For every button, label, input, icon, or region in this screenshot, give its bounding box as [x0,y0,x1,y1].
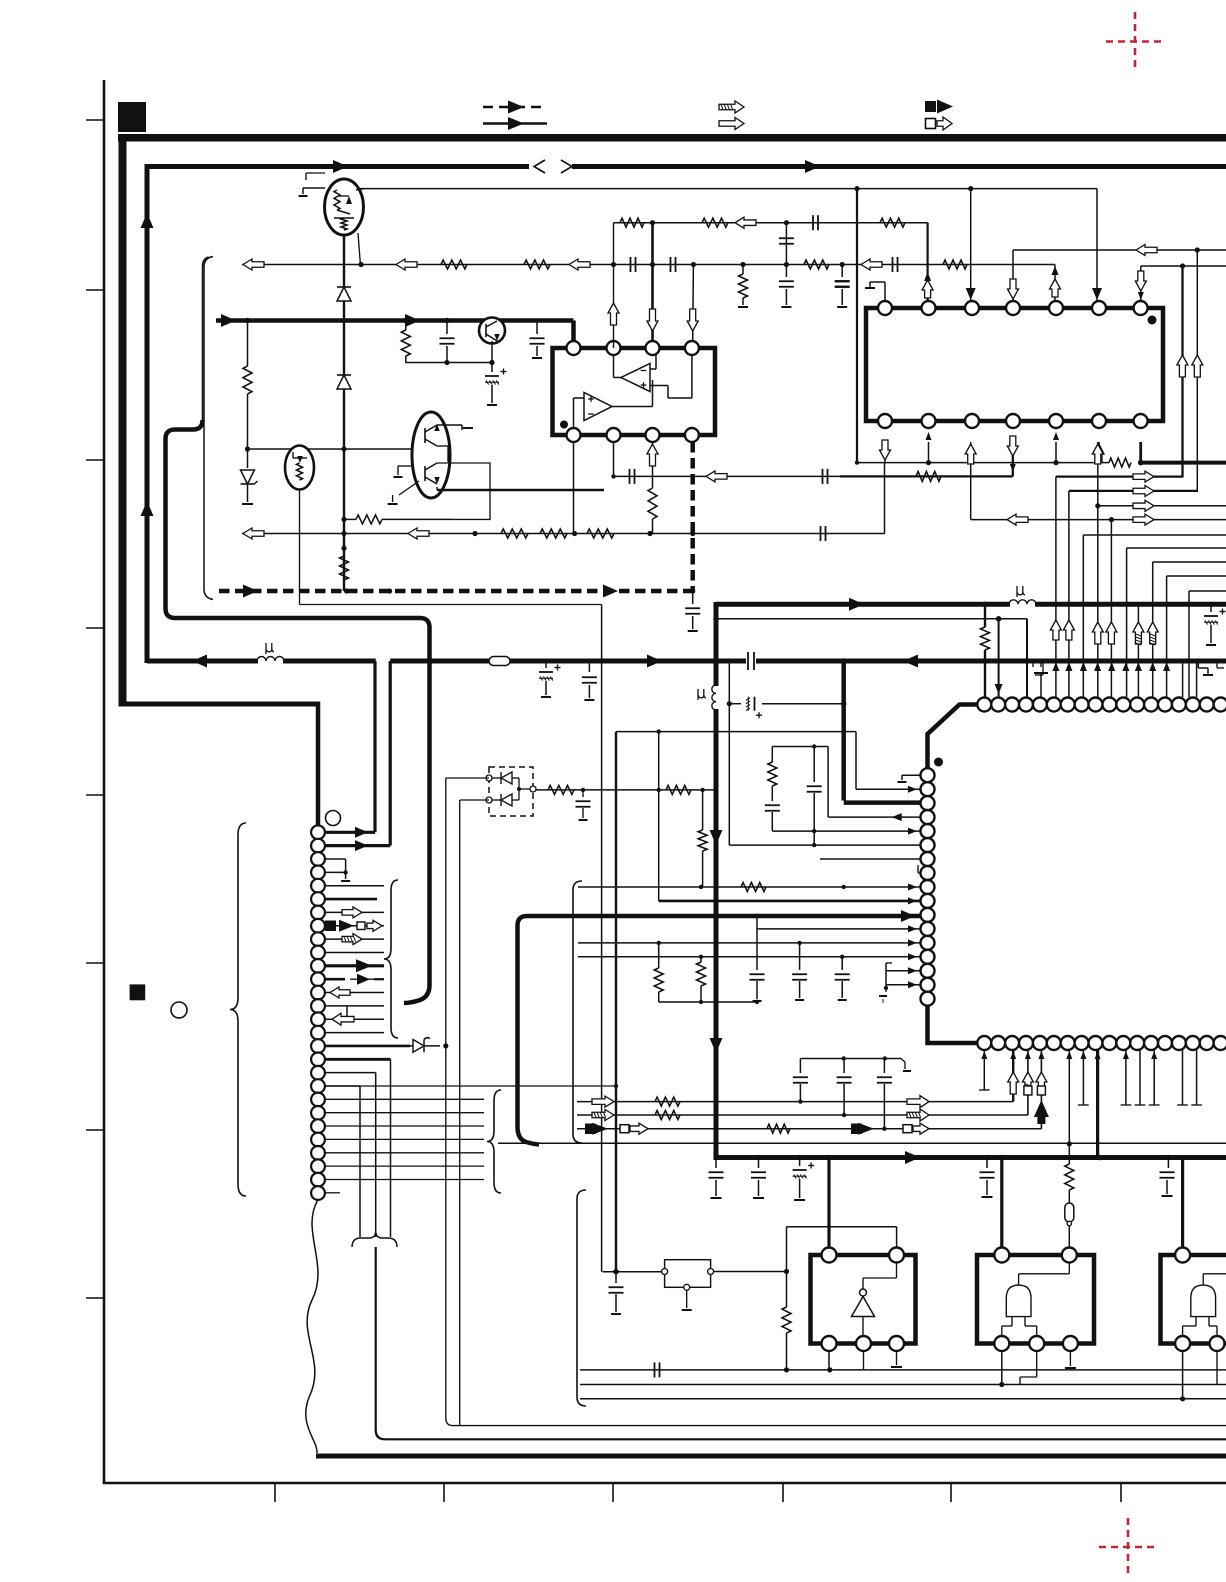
connector CN1 pin 27 [311,1173,325,1187]
net bus left vertical x147 [145,164,150,663]
cluster cap right [813,747,815,783]
U3 L1 stub ground [902,774,920,776]
vertical x702 row790-887 [702,790,704,830]
Q4 internals [424,466,426,481]
U3 L2 wire [856,788,920,790]
border tick bottom 4 [782,1483,784,1502]
corner mark square [118,102,146,132]
junction dot row845 x814 [812,843,816,847]
legend black arrow [937,100,953,114]
diode pack dashed box [489,767,533,816]
bus y604 arrow right [849,598,864,611]
U2 pin1140 wire up [1140,266,1142,301]
cap below bus1157 x1167 [1167,1158,1169,1169]
connector CN1 pin 1 [311,825,325,839]
ground stub bus661 right [1197,661,1199,668]
U3 bottom pin b12 [1130,1036,1144,1050]
U2 bottom pin 11 [1006,414,1020,428]
thick corner bus661 to pin row3 [841,661,846,801]
junction dot x345 y533 [341,531,346,536]
bundle bracket4 [577,1190,586,1406]
U3 bottom pin b2 [991,1036,1005,1050]
junction dot bus661 x589 [587,658,592,663]
connector marker circle [326,811,341,826]
U2 top pin 4 [1006,301,1020,315]
inductor L1 on bus661 [257,657,284,662]
vertical x345 trunk [343,234,345,591]
junction dot row1398 x1184 [1180,1396,1185,1401]
ecap below bus604 x1211 [1210,604,1212,612]
open arrow right row520 [1133,514,1154,525]
op-amp A1 (left-pointing) [621,364,650,392]
wire x1152 row562 to pin [1152,562,1154,697]
junction dot row1086 x616 [614,1084,618,1088]
row491 wire [1069,490,1197,492]
Q1 base wire and ground [303,187,325,189]
U3 bottom pin b14 [1158,1036,1172,1050]
IC U3 outline [928,705,1226,1044]
cap below bus1157 x716 [715,1158,717,1169]
wire x1166 row575 to pin [1166,576,1168,697]
open arrow up x1055 [1050,620,1061,640]
border tick left 7 [86,1129,104,1131]
junction dot bus1157 x799 [797,1155,803,1161]
U3 top pin 3 [1005,698,1019,712]
label mu L3 [698,689,706,700]
wire U1 pin5 down [573,442,575,534]
frame outer left vertical [119,137,127,707]
U2 top pin 5 [1049,301,1063,315]
connector CN1 pin 11 [311,959,325,973]
thick row462 right [1141,461,1226,465]
net bus arrow right 1 [333,160,348,173]
connector CN1 pin 8 [311,919,325,933]
transistor Q3 Q4 (dual, oval) [412,412,450,498]
junction dot bus1157 x1168 [1166,1155,1172,1161]
U3 bottom pin b6 [1047,1036,1061,1050]
CN1 pin8 combo arrows [325,925,384,927]
U2 top pin 3 [965,301,979,315]
U3 bottom pin b16 [1186,1036,1200,1050]
registration cross top-right [1106,12,1165,70]
dashed bus arrow 1 [243,585,258,598]
cap to ground x842 [841,265,843,278]
thick wire bus1157 to U5 [1000,1158,1003,1249]
junction dot row266 x1182 [1180,263,1185,268]
bus y320 arrow 2 [405,314,420,327]
routing hook top x202 [203,257,209,266]
series cap row223 [812,215,814,230]
inductor L3 on trunk x716 [712,685,716,710]
row970 stub [885,963,887,988]
junction dot row943 x799 [797,941,801,945]
junction dot row790 x583 [581,788,585,792]
J1 pin circles [662,1269,668,1275]
U5 bottom pin c [1063,1336,1078,1351]
junction dot row462 x1140 [1138,460,1144,466]
resistor x786 down [786,1272,788,1308]
connector CN1 pin 9 [311,932,325,946]
hook right arrow row [1216,661,1218,668]
cap below dashed end [692,593,694,604]
rowC y1130 wire [577,1128,1041,1130]
U3 left pin L10 [921,894,935,908]
vertical x729 wire [728,661,730,845]
wire row y250 [1013,249,1226,251]
op-amp A2 (right-pointing) [584,393,612,421]
resistor row519 [344,518,356,520]
U3 top pin 11 [1116,698,1130,712]
U3 left pin L4 [921,810,935,824]
junction dot x786 y1271 [784,1269,789,1274]
resistor row462 [1109,458,1131,467]
U4 pin bottom-c ground [896,1351,898,1366]
border tick left 3 [86,459,104,461]
row1439 wire [385,1438,1226,1440]
U2 pin972 wire up [970,189,972,301]
wire x1126 row548 to pin [1126,548,1128,697]
U2 top pin 2 [922,301,936,315]
border tick left 2 [86,289,104,291]
U3 b7 wire to resonator [1068,1050,1070,1164]
transistor Q1 (digital, oval) [325,179,364,235]
row1271 wire [603,1271,664,1273]
CN1 pin18 drop x390 [390,1059,392,1237]
U1 pin1 marker dot [560,421,568,429]
cap below bus1157 x987 [986,1158,988,1169]
diode pack pin circles [486,775,492,781]
U6 top pin a [1175,1248,1190,1263]
rowB corner up to pin [1027,1050,1029,1115]
rowC black arrow mid [858,1123,874,1135]
junction dot x1097 bus604 [1095,602,1100,607]
vertical x616 [615,732,617,1272]
U3 left pin L13 [921,936,935,950]
gate IC U4 body [811,1255,916,1344]
U6 pin bottom-a wire [1182,1351,1184,1399]
U5 pin bottom-c ground [1069,1351,1071,1367]
U3 top pin 2 [991,698,1005,712]
CN1 pin15 open arrow left [325,1018,384,1020]
junction dot row533 x692 [690,531,695,536]
bundle brace2 [487,1090,501,1193]
junction dot bus320 x405 [403,318,409,324]
wire row y533 [242,533,885,535]
ecap x492 [491,363,493,373]
U3 top pin 10 [1102,698,1116,712]
U2 bottom pin 9 [922,414,936,428]
CN1 lower row 8 [325,1179,484,1181]
Q2 emitter wire [491,341,493,363]
open arrow right row491 [1133,486,1154,497]
rowB hatched arrow left end [592,1110,614,1121]
connector CN1 pin 13 [311,986,325,1000]
U3 top pin 14 [1158,698,1172,712]
U3 b5 small arrow [1038,1051,1044,1059]
wire top feed U4 pin b [786,1227,788,1272]
wire x1138 bus604 to pin [1137,604,1139,697]
U2 top pin 7 [1134,301,1148,315]
U2 pin14 thick wire down [1139,442,1142,463]
junction dot row264 x693 [691,262,696,267]
CN1 pin7 wire open arrow [325,911,384,913]
U2 bottom pin 14 [1134,414,1148,428]
Q5 internals [293,457,307,459]
cap x845 below y1058 [843,1059,845,1074]
junction dot bus1157 x1099 [1097,1155,1103,1161]
row520 wire [971,519,1226,521]
junction dot rowA x800 [798,1099,802,1103]
open arrow right row476 [1133,471,1154,482]
wire x1196 to pin [1196,661,1198,697]
row562 wire [1153,561,1226,563]
junction dot x345 bus320 [341,318,347,324]
resistor feed x985 [984,604,986,627]
junction dot dashed x346 [344,588,349,593]
junction dot bus661 x985 [982,658,988,664]
wire x1189 row589 to pin [1188,591,1190,697]
U3 left pin L1 [921,768,935,782]
U3 left pin L2 [921,782,935,796]
junction dot row264 x613 [611,262,616,267]
U4 bottom pin c [889,1336,904,1351]
U2 pin1056 small arrow up [1052,266,1059,275]
junction dot y1002 x701 [699,1000,703,1004]
bus y661 arrow left 2 [903,655,918,668]
rowC open square arrow [620,1125,629,1133]
series cap row533 [820,526,822,541]
U2 pin9 wire down [928,442,930,463]
net bus up-arrow 2 [141,501,154,516]
series cap row264 b [670,257,672,272]
U2 pin1056 open arrow up [1050,279,1061,297]
junction dot x345 y519 [341,517,346,522]
junction dot row462 x1056 [1053,460,1058,465]
junction dot row250 x1197 [1195,247,1200,252]
junction dot bus1157 x758 [756,1155,762,1161]
junction dot bus604 x1211 [1208,602,1213,607]
CN1 pin3-4 ground [325,858,346,860]
resonator X1 [1065,1203,1074,1222]
U3 top pin 8 [1075,698,1089,712]
junction dot y362 x447 [444,360,449,365]
U5 gate wires [1018,1274,1020,1285]
U3 top pin 9 [1089,698,1103,712]
marker circle small [171,1002,187,1018]
resistor row223 b [702,218,728,227]
frame bottom thick bar [316,1454,1226,1459]
U3 left pin L6 [921,838,935,852]
vertical x857 wire [856,189,858,463]
junction dot dashed x389 [387,588,392,593]
U3 left pin L3 [921,796,935,810]
open arrow left row264 c [569,259,590,270]
cap x883 below [885,988,887,992]
resistor x345 y558-578 [340,556,349,580]
series cap row476 b [822,469,824,484]
diode D5 in pack [501,772,512,784]
U5 bottom pin a [994,1336,1009,1351]
connector CN1 pin 6 [311,892,325,906]
open arrow left row533 b [408,528,429,539]
wire x1112 row520 to pin [1110,520,1112,697]
junction dot row1370 x786 [784,1367,789,1372]
wire Q1 collector to row188 [356,189,364,190]
net bus top y166 right segment [572,164,1226,169]
vertical x857 lower dot [855,460,859,464]
junction dot dashed x692 y591 [690,588,695,593]
rowC black arrow up [1034,1100,1049,1117]
resistor to ground x743 [742,265,744,275]
wire x1183 to pin [1182,661,1184,697]
connector CN1 pin 26 [311,1159,325,1173]
rowB hatched arrow right [907,1109,929,1121]
U2 pin928 wire from row223 [926,223,928,301]
CN1 pin1 thick wire [325,831,375,834]
row535 wire [1083,534,1226,536]
wire row y618 [716,618,1027,620]
CN1 pin2 thick wire [325,844,390,847]
connector CN1 pin 28 [311,1186,325,1200]
junction dot row462 x928 [926,460,931,465]
rowA open arrow left end [592,1096,614,1107]
junction dot x345 y548 [341,546,346,551]
U3 left pin L5 [921,824,935,838]
junction dot trunk x716 y916 [713,913,719,919]
ecap below bus661 x546 [545,661,547,668]
net bus up-arrow 1 [141,213,154,228]
wire row y476 right segment [1056,475,1183,477]
U4 inverter wires [862,1278,864,1289]
cable brace left big [230,823,246,1196]
junction dot x247 y449 [245,446,250,451]
junction dot row943 x658 [657,941,661,945]
row575 wire [1167,575,1226,577]
border tick bottom 2 [443,1483,445,1502]
Q5 emitter wire down [299,490,301,605]
Q4 emitter thick wire [436,487,438,490]
wire y1002 [659,1001,757,1003]
diode pack inner join [518,778,520,800]
routing thin vertical x202 [202,266,204,420]
CN1 lower row 5 [325,1138,484,1140]
row790 wire [536,789,716,791]
U3 left pin L14 [921,950,935,964]
Q3-Q4 base rect wire [437,445,448,447]
U2 pin8 open arrow down [880,440,891,460]
corner x446 bottom [446,1418,453,1426]
U3 L2 riser x856 [855,732,857,790]
connector CN1 pin 24 [311,1133,325,1147]
CN1 pin9 hatched arrow [325,938,384,940]
U4 top pin a [822,1248,837,1263]
cap x888 below y1058 [883,1059,885,1074]
connector CN1 pin 3 [311,852,325,866]
area outline bracket x204 [204,257,213,600]
vertical x1197 wire [1196,250,1198,492]
U3 top pin 4 [1019,698,1033,712]
wire row533 corner up x884 [884,463,886,534]
ecap below bus1157 x800 [799,1158,801,1167]
junction dot row505 [1095,503,1100,508]
junction dot row264 x786 [784,262,789,267]
U3 top pin 18 [1214,698,1226,712]
cap x616 below dot [615,1272,617,1283]
routing S-path thick [166,420,430,1003]
U4 top pin b [889,1248,904,1263]
row589 wire [1189,590,1226,592]
row505 wire [1098,505,1226,507]
row1086 extension [484,1085,616,1087]
wire row y264 [242,264,1055,266]
series cap row476 [629,469,631,484]
vertical x757 wire [756,916,758,970]
junction dot x886 y988 [884,986,888,990]
U3 bottom pin b1 [977,1036,991,1050]
wire x1083 row535 to pin [1082,535,1084,697]
U6 pin bottom-b wire [1216,1351,1218,1385]
U3 bottom pin b4 [1019,1036,1033,1050]
bus y320 arrow 1 [221,314,236,327]
junction dot x345 y449 [341,446,346,451]
U3 top pin 1 [977,698,991,712]
open arrow down x693 [687,309,698,331]
U2 pin11 arrow below [1007,436,1018,456]
wire x1027 row618 to pin [1026,619,1028,697]
U3 b13 stub [1153,1050,1155,1105]
open arrow up x1097 top [1092,444,1103,464]
U2 bottom pin 10 [965,414,979,428]
junction dot cluster top x814 [812,744,816,748]
rowA open arrow up [1008,1072,1019,1094]
junction dot row520 [1109,517,1114,522]
junction dot y362 x492 [489,360,494,365]
U2 pin1099 wire up [1096,189,1098,301]
series cap row264 a [630,257,632,272]
CN1 pin20 wire [325,1085,360,1087]
wire x1013 pin to row476 [1012,440,1014,476]
U1 bottom pin 7 [646,428,660,442]
connector CN1 pin 22 [311,1106,325,1120]
wire x985 bus661 to pin [984,661,986,697]
junction dot row264 x361 [358,262,363,267]
wire y703 with ecap [729,703,741,705]
rowB hatched arrow up [1022,1072,1033,1094]
open arrow left row250 [1136,245,1157,256]
U4 pin bottom-b wire [863,1351,865,1370]
U3 left pin L17 [921,992,935,1006]
CN1 lower row 4 [325,1125,484,1127]
U3 b3 small arrow [1010,1051,1016,1059]
rowA resistor [655,1097,680,1106]
junction dot pin17 x446 [443,1043,448,1048]
small arrow x1169 [1163,662,1170,671]
connector CN1 pin 23 [311,1119,325,1133]
U2 pin1013 open arrow down [1008,279,1019,299]
border tick left 4 [86,627,104,629]
bus y661 right portion [756,659,1226,664]
bus y661 middle-right portion [390,659,746,664]
junction dot bus1157 x829 [826,1155,832,1161]
junction dot row1370 x829 [827,1367,832,1372]
connector CN1 pin 5 [311,879,325,893]
wire cap x786 row223-264 [785,223,787,265]
diode D2 on x345 [337,375,351,389]
frame outer vertical x318 [316,702,321,827]
junction dot y1058 x884 [883,1056,887,1060]
open arrow up x613 [608,303,619,325]
J1 to dot wire [714,1271,787,1273]
